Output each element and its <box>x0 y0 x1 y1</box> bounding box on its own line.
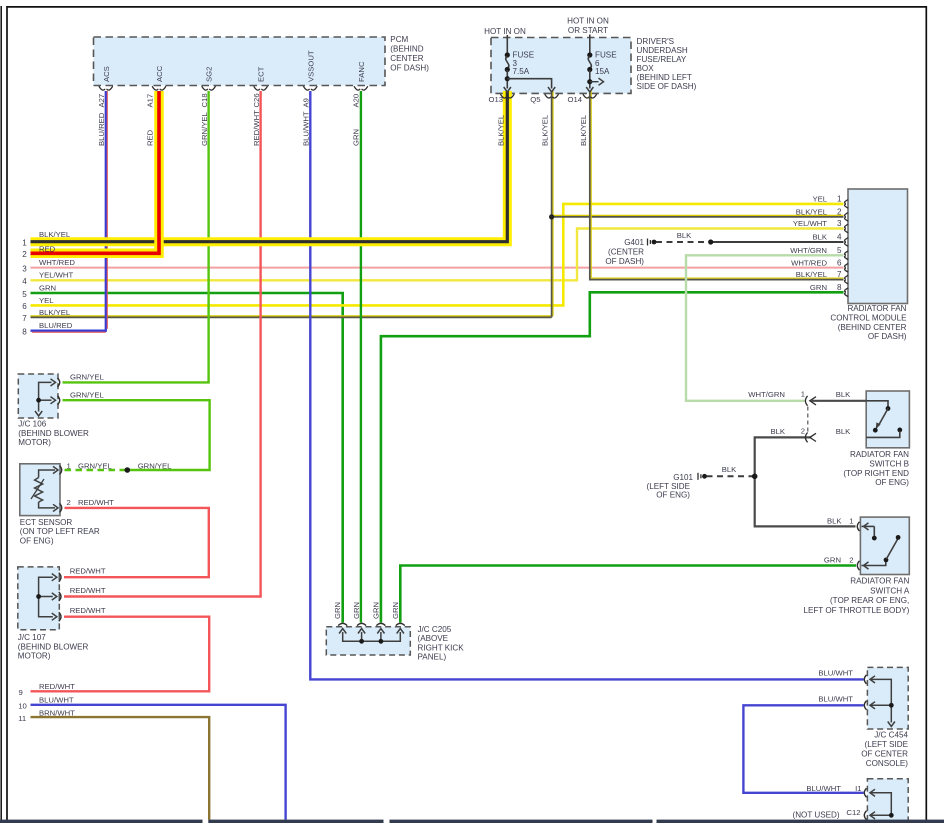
svg-text:CONSOLE): CONSOLE) <box>866 759 909 768</box>
svg-text:5: 5 <box>22 290 27 299</box>
svg-text:A9: A9 <box>302 98 311 107</box>
inline connector at switch B pin 2 <box>805 407 816 443</box>
J/C C205 internal bus <box>343 632 401 644</box>
svg-text:C12: C12 <box>846 808 860 817</box>
highlighted wire row1 BLK/YEL to fuse O13 (yellow trace band) <box>31 91 508 242</box>
wire row3 WHT/RED to module pin 6 <box>31 267 844 269</box>
J/C C454 pin 1 arc and arrow <box>864 675 866 684</box>
svg-text:RED/WHT: RED/WHT <box>70 586 106 595</box>
driver's underdash fuse/relay box <box>491 38 631 94</box>
svg-text:UNDERDASH: UNDERDASH <box>637 46 688 55</box>
PCM pin C26 hooks <box>254 86 268 90</box>
radiator fan switch A box <box>860 517 909 574</box>
switch A pin 2 arc <box>857 561 859 570</box>
svg-text:OF ENG): OF ENG) <box>875 478 909 487</box>
C12 pin C12 arc and arrow <box>864 811 866 820</box>
svg-text:9: 9 <box>19 688 23 697</box>
C12 pin I1 arc and arrow <box>864 788 866 797</box>
svg-text:SWITCH A: SWITCH A <box>870 586 910 595</box>
svg-text:(TOP RIGHT END: (TOP RIGHT END <box>843 469 909 478</box>
module pin 4 hooks <box>845 238 849 247</box>
C12 connector box (cut off at page bottom) <box>867 779 908 823</box>
svg-text:SIDE OF DASH): SIDE OF DASH) <box>637 82 697 91</box>
svg-text:BLU/WHT: BLU/WHT <box>39 695 74 704</box>
wire row4 YEL/WHT to module pin 3 <box>31 229 844 281</box>
svg-text:BLK/YEL: BLK/YEL <box>796 270 828 279</box>
svg-text:ECT: ECT <box>257 66 266 82</box>
svg-text:(LEFT SIDE: (LEFT SIDE <box>865 740 909 749</box>
svg-text:DRIVER'S: DRIVER'S <box>637 37 675 46</box>
wire fuse O14 BLK/YEL to module pin 7 <box>591 91 843 278</box>
svg-text:8: 8 <box>837 283 842 292</box>
ECT sensor box <box>20 464 60 516</box>
svg-text:GRN: GRN <box>39 283 56 292</box>
svg-text:3: 3 <box>22 264 27 273</box>
svg-text:GRN: GRN <box>352 129 361 146</box>
svg-text:WHT/GRN: WHT/GRN <box>748 390 785 399</box>
svg-text:WHT/RED: WHT/RED <box>39 258 75 267</box>
svg-text:(ON TOP LEFT REAR: (ON TOP LEFT REAR <box>20 527 100 536</box>
svg-text:O13: O13 <box>488 95 503 104</box>
ECT sensor pin 1 arc <box>60 466 62 475</box>
svg-text:(BEHIND LEFT: (BEHIND LEFT <box>637 73 692 82</box>
wire J/C 106 pin 2 GRN/YEL to ECT splice <box>63 400 210 470</box>
wire PCM ECT RED/WHT to J/C 107 pin 2 <box>64 91 261 597</box>
svg-text:J/C 106: J/C 106 <box>18 420 46 429</box>
svg-text:GRN: GRN <box>391 602 400 619</box>
svg-text:1: 1 <box>837 194 842 203</box>
svg-text:BLU/RED: BLU/RED <box>39 321 73 330</box>
J/C 107 internal bus <box>36 577 53 617</box>
svg-text:ECT SENSOR: ECT SENSOR <box>20 518 73 527</box>
J/C 107 junction box <box>18 567 60 630</box>
PCM pin A20 hooks <box>354 86 368 90</box>
J/C 106 internal bus with down arrow <box>35 382 52 416</box>
svg-text:RED/WHT: RED/WHT <box>70 606 106 615</box>
svg-text:GRN: GRN <box>352 602 361 619</box>
radiator fan control module box <box>848 189 908 304</box>
wire PCM FANC GRN to J/C C205 pin 2 <box>360 91 362 623</box>
wire PCM SG2 GRN/YEL to J/C 106 pin 1 <box>63 91 209 382</box>
svg-text:HOT IN ON: HOT IN ON <box>567 17 609 26</box>
J/C 106 pin 2 arc and arrow <box>58 396 60 405</box>
svg-text:YEL: YEL <box>39 296 54 305</box>
wire switch B pin 1 BLK from connector to box <box>812 400 867 402</box>
svg-text:1: 1 <box>801 390 805 399</box>
svg-text:SG2: SG2 <box>205 67 214 82</box>
svg-text:BLK/YEL: BLK/YEL <box>579 114 588 146</box>
svg-text:4: 4 <box>837 233 842 242</box>
svg-text:2: 2 <box>837 207 842 216</box>
svg-text:BOX: BOX <box>637 64 655 73</box>
J/C C205 pin 4 arc and arrow <box>396 623 405 625</box>
svg-text:(NOT USED): (NOT USED) <box>793 811 840 820</box>
wire J/C 107 pin 3 RED/WHT to row 9 <box>31 617 210 692</box>
PCM connector box (BEHIND CENTER OF DASH) <box>94 37 386 86</box>
svg-text:8: 8 <box>22 328 27 337</box>
svg-text:GRN/YEL: GRN/YEL <box>78 461 112 470</box>
svg-text:BLK: BLK <box>836 427 851 436</box>
junction dot fuse Q5 wire to module pin 2 <box>549 214 554 219</box>
splice dot GRN/YEL <box>125 467 131 473</box>
svg-text:G101: G101 <box>673 473 693 482</box>
svg-text:RED/WHT: RED/WHT <box>39 682 75 691</box>
svg-text:G401: G401 <box>624 238 644 247</box>
svg-text:6: 6 <box>22 302 27 311</box>
highlighted wire row2 RED to PCM ACC (yellow trace band) <box>31 91 160 253</box>
svg-text:4: 4 <box>22 277 27 286</box>
svg-text:OF DASH): OF DASH) <box>605 257 644 266</box>
svg-text:ACS: ACS <box>102 66 111 82</box>
wire row11 BRN/WHT off page bottom <box>31 717 210 820</box>
svg-text:BLU/WHT: BLU/WHT <box>806 784 841 793</box>
svg-text:5: 5 <box>837 246 842 255</box>
svg-text:OF ENG): OF ENG) <box>656 491 690 500</box>
svg-text:GRN/YEL: GRN/YEL <box>70 373 104 382</box>
svg-text:BLK: BLK <box>770 427 785 436</box>
svg-text:RED: RED <box>145 129 154 146</box>
wire PCM VSSOUT BLU/WHT to J/C C454 pin 1 <box>310 91 863 679</box>
svg-text:A20: A20 <box>352 94 361 108</box>
svg-text:PCM: PCM <box>390 35 408 44</box>
svg-text:7: 7 <box>837 270 842 279</box>
svg-text:3: 3 <box>837 219 842 228</box>
svg-text:SWITCH B: SWITCH B <box>869 459 909 468</box>
wire row10 BLU/WHT off page bottom <box>31 705 286 820</box>
svg-text:OF DASH): OF DASH) <box>390 64 429 73</box>
svg-text:2: 2 <box>801 427 805 436</box>
svg-text:(BEHIND CENTER: (BEHIND CENTER <box>838 323 907 332</box>
J/C C205 pin 1 arc and arrow <box>338 623 347 625</box>
svg-text:CENTER: CENTER <box>390 54 423 63</box>
wire J/C C454 pin 2 BLU/WHT to C12 pin I1 <box>743 705 863 793</box>
svg-text:J/C 107: J/C 107 <box>18 633 46 642</box>
PCM pin A17 hooks <box>152 86 166 90</box>
svg-text:BLK: BLK <box>722 465 737 474</box>
svg-text:BLU/WHT: BLU/WHT <box>818 694 853 703</box>
svg-text:HOT IN ON: HOT IN ON <box>484 27 526 36</box>
svg-text:FUSE/RELAY: FUSE/RELAY <box>637 55 687 64</box>
svg-text:7.5A: 7.5A <box>513 67 530 76</box>
inline connector at switch B pin 1 (arc + arrow + dashed link) <box>805 396 816 406</box>
svg-text:A27: A27 <box>97 94 106 108</box>
svg-text:1: 1 <box>22 239 27 248</box>
svg-text:C18: C18 <box>200 93 209 107</box>
fuse box pin O13 hooks <box>500 94 514 98</box>
wire row8 BLU/RED from PCM ACS <box>31 91 106 331</box>
switch A internal contacts and blade <box>862 523 901 569</box>
wire G101 BLK dashed to junction <box>707 475 755 477</box>
svg-text:BLK/YEL: BLK/YEL <box>39 308 71 317</box>
J/C 106 pin 1 arc and arrow <box>58 378 60 387</box>
svg-text:J/C C454: J/C C454 <box>874 731 908 740</box>
ground symbol G401 <box>648 239 657 246</box>
J/C C454 junction box <box>867 667 908 729</box>
svg-text:C26: C26 <box>252 93 261 107</box>
svg-text:BLK: BLK <box>827 516 842 525</box>
svg-text:(BEHIND BLOWER: (BEHIND BLOWER <box>18 429 89 438</box>
J/C C454 pin 2 arc and arrow <box>864 701 866 710</box>
svg-text:GRN: GRN <box>810 283 827 292</box>
module pin 5 hooks <box>845 251 849 260</box>
J/C 107 pin 1 arc and arrow <box>59 573 61 582</box>
svg-text:(BEHIND BLOWER: (BEHIND BLOWER <box>18 642 89 651</box>
svg-text:RADIATOR FAN: RADIATOR FAN <box>850 450 909 459</box>
svg-text:VSSOUT: VSSOUT <box>306 50 315 82</box>
svg-text:BLU/WHT: BLU/WHT <box>302 111 311 146</box>
module pin 2 hooks <box>845 213 849 222</box>
wire module pin 5 WHT/GRN to switch B connector <box>686 255 844 400</box>
J/C 107 pin 3 arc and arrow <box>59 612 61 621</box>
svg-text:(TOP REAR OF ENG,: (TOP REAR OF ENG, <box>830 596 909 605</box>
svg-text:2: 2 <box>67 498 71 507</box>
junction dot G101 to switch ground wire <box>752 474 758 480</box>
bottom page bar <box>0 820 944 823</box>
svg-text:PANEL): PANEL) <box>418 653 447 662</box>
J/C C205 junction box <box>326 627 410 655</box>
svg-text:11: 11 <box>18 714 26 723</box>
switch B internal contacts and blade <box>866 401 902 438</box>
svg-text:(CENTER: (CENTER <box>608 248 644 257</box>
svg-text:RIGHT KICK: RIGHT KICK <box>418 643 465 652</box>
svg-text:GRN: GRN <box>333 602 342 619</box>
svg-text:2: 2 <box>22 250 27 259</box>
svg-text:FANC: FANC <box>357 61 366 82</box>
svg-text:MOTOR): MOTOR) <box>18 652 51 661</box>
svg-text:RADIATOR FAN: RADIATOR FAN <box>847 304 906 313</box>
svg-text:BLK: BLK <box>836 390 851 399</box>
svg-text:GRN: GRN <box>371 602 380 619</box>
svg-text:RADIATOR FAN: RADIATOR FAN <box>850 577 909 586</box>
svg-text:RED: RED <box>39 244 56 253</box>
svg-text:BLK/YEL: BLK/YEL <box>496 114 505 146</box>
PCM pin C18 hooks <box>202 86 216 90</box>
svg-text:RED/WHT: RED/WHT <box>252 110 261 146</box>
wire G401 BLK dashed then solid to module pin 4 <box>656 241 711 243</box>
wire radiator fan switch A pin 2 GRN to J/C C205 pin 4 <box>400 566 856 623</box>
fuse 6 element (15A) <box>586 35 603 93</box>
svg-text:1: 1 <box>67 461 71 470</box>
module pin 7 hooks <box>845 275 849 284</box>
svg-text:J/C C205: J/C C205 <box>418 625 452 634</box>
svg-text:Q5: Q5 <box>530 95 540 104</box>
svg-text:BRN/WHT: BRN/WHT <box>39 708 75 717</box>
svg-text:BLK/YEL: BLK/YEL <box>39 230 71 239</box>
fuse box pin O14 hooks <box>583 94 597 98</box>
svg-text:O14: O14 <box>567 95 582 104</box>
ECT sensor pin 2 arc <box>60 503 62 512</box>
PCM pin A9 hooks <box>303 86 317 90</box>
svg-text:BLK/YEL: BLK/YEL <box>796 207 828 216</box>
C12 internal bus <box>870 793 894 818</box>
svg-text:(ABOVE: (ABOVE <box>418 634 449 643</box>
J/C 106 junction box <box>18 374 58 418</box>
svg-text:WHT/RED: WHT/RED <box>791 258 827 267</box>
svg-text:CONTROL MODULE: CONTROL MODULE <box>830 314 907 323</box>
svg-text:A17: A17 <box>145 94 154 108</box>
switch A pin 1 arc <box>857 522 859 531</box>
svg-text:BLK: BLK <box>812 233 827 242</box>
svg-text:BLK/YEL: BLK/YEL <box>541 114 550 146</box>
svg-text:GRN/YEL: GRN/YEL <box>70 390 104 399</box>
J/C C205 pin 2 arc and arrow <box>357 623 366 625</box>
J/C 107 pin 2 arc and arrow <box>59 592 61 601</box>
PCM pin A27 hooks <box>99 86 113 90</box>
wire row6 YEL to module pin 1 <box>31 204 844 306</box>
svg-text:6: 6 <box>837 258 842 267</box>
svg-text:YEL/WHT: YEL/WHT <box>39 271 73 280</box>
svg-text:2: 2 <box>849 555 853 564</box>
ground symbol G101 <box>698 473 707 480</box>
ECT sensor thermistor element <box>31 470 55 508</box>
border frame outer-left line <box>0 6 2 820</box>
svg-text:I1: I1 <box>855 784 861 793</box>
svg-text:WHT/GRN: WHT/GRN <box>790 246 827 255</box>
wire ECT sensor pin 2 RED/WHT to J/C 107 pin 1 <box>64 508 209 577</box>
wire ECT sensor pin 1 GRN/YEL dashed to splice <box>65 469 128 471</box>
svg-text:OF CENTER: OF CENTER <box>861 750 908 759</box>
svg-text:YEL/WHT: YEL/WHT <box>793 219 827 228</box>
module pin 3 hooks <box>845 224 849 233</box>
wire module pin 8 GRN to J/C C205 pin 3 <box>381 292 844 622</box>
svg-text:BLU/WHT: BLU/WHT <box>818 668 853 677</box>
svg-text:(BEHIND: (BEHIND <box>390 45 423 54</box>
module pin 1 hooks <box>845 200 849 209</box>
wire switch B pin 2 BLK to switch A pin 1 <box>755 437 856 526</box>
svg-text:YEL: YEL <box>812 194 827 203</box>
wire row7 BLK/YEL from fuse Q5 vertical <box>31 315 554 317</box>
svg-text:RED/WHT: RED/WHT <box>78 498 114 507</box>
module pin 8 hooks <box>845 288 849 297</box>
svg-text:MOTOR): MOTOR) <box>18 438 51 447</box>
svg-text:7: 7 <box>22 314 27 323</box>
svg-text:LEFT OF THROTTLE BODY): LEFT OF THROTTLE BODY) <box>803 606 909 615</box>
fuse box pin Q5 hooks <box>545 94 559 98</box>
wire fuse Q5 BLK/YEL vertical with branch to module pin 2 <box>552 91 554 316</box>
svg-text:GRN/YEL: GRN/YEL <box>138 461 172 470</box>
svg-text:1: 1 <box>849 516 853 525</box>
svg-text:GRN/YEL: GRN/YEL <box>200 112 209 146</box>
svg-text:OF DASH): OF DASH) <box>868 332 907 341</box>
J/C C205 pin 3 arc and arrow <box>376 623 385 625</box>
svg-text:RED/WHT: RED/WHT <box>70 567 106 576</box>
svg-text:BLU/RED: BLU/RED <box>97 112 106 146</box>
svg-text:15A: 15A <box>595 67 610 76</box>
fuse 3 element (7.5A) <box>504 35 556 92</box>
radiator fan switch B box <box>866 391 909 448</box>
J/C C454 internal bus with down arrow <box>870 679 895 726</box>
svg-text:OF ENG): OF ENG) <box>20 536 54 545</box>
svg-text:ACC: ACC <box>155 65 164 82</box>
svg-text:OR START: OR START <box>568 26 608 35</box>
svg-text:GRN: GRN <box>824 555 841 564</box>
wire row5 GRN to J/C C205 pin 1 <box>31 293 343 623</box>
svg-text:BLK: BLK <box>677 231 692 240</box>
module pin 6 hooks <box>845 264 849 273</box>
svg-text:10: 10 <box>18 702 27 711</box>
